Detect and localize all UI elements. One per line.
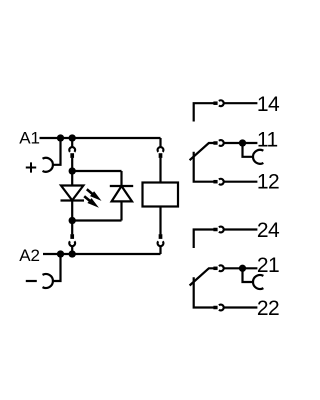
LED emission arrow 1 xyxy=(87,189,93,194)
contact arm group 2 (movable contact) xyxy=(190,268,214,285)
wire row 11 to label xyxy=(224,142,258,144)
junction dot LED top node xyxy=(69,167,76,174)
connector socket row 24 xyxy=(219,227,224,233)
junction dot A2-LED branch xyxy=(69,250,76,257)
connector pin (male) on LED branch bottom xyxy=(70,234,74,239)
svg-text:A1: A1 xyxy=(19,129,40,148)
junction dot A1-clamp xyxy=(57,134,64,141)
plus sign xyxy=(26,162,36,172)
wire LED node down to LED xyxy=(71,171,73,186)
connector pin (male) on coil bottom xyxy=(159,234,163,239)
wire row 14 to label xyxy=(224,102,258,104)
svg-text:22: 22 xyxy=(257,297,279,320)
wire row 21 to label xyxy=(224,267,258,269)
connector socket row 14 xyxy=(219,100,224,106)
connector pin row 24 xyxy=(213,228,217,232)
wire coil box down xyxy=(159,207,161,235)
wire socket to A2 rail xyxy=(159,246,161,254)
connector pin (male) on coil top xyxy=(159,153,163,158)
diode triangle (pointing up) xyxy=(112,186,132,201)
connector pin row 22 xyxy=(213,306,217,310)
wire A2 horizontal rail xyxy=(43,253,161,255)
connector pin row 14 xyxy=(213,101,217,105)
connector socket (female) on coil top xyxy=(158,147,164,152)
junction dot A1-LED branch xyxy=(69,134,76,141)
wire A2 dot down to clamp xyxy=(53,254,61,281)
junction dot row 21 clamp xyxy=(239,265,246,272)
svg-text:12: 12 xyxy=(257,171,279,194)
diode cathode bar xyxy=(110,185,133,187)
connector pin row 21 xyxy=(213,267,217,271)
clamp terminal 11 (cage clamp arc) xyxy=(253,150,263,164)
svg-text:11: 11 xyxy=(257,128,278,151)
connector socket row 12 xyxy=(219,179,224,185)
wire socket to A2 rail xyxy=(71,246,73,254)
wire pin to coil box xyxy=(159,158,161,183)
LED triangle (anode) xyxy=(61,186,83,201)
svg-text:14: 14 xyxy=(257,93,280,116)
clamp terminal 21 (cage clamp arc) xyxy=(253,275,263,289)
connector socket row 22 xyxy=(219,305,224,311)
svg-text:21: 21 xyxy=(257,254,279,277)
clamp terminal A1 (cage clamp arc) xyxy=(43,158,53,172)
wire LED bottom node down xyxy=(71,221,73,235)
contact group 2: NO stub 24 xyxy=(194,230,214,249)
svg-text:24: 24 xyxy=(257,219,280,242)
clamp terminal A2 (cage clamp arc) xyxy=(43,274,53,288)
wire row 12 to label xyxy=(224,181,258,183)
wire coil corner down from A1 rail xyxy=(159,138,161,147)
wire A1 dot down to clamp xyxy=(53,138,61,165)
connector socket (female) on coil bottom xyxy=(158,241,164,246)
wire from A1 dot2 down xyxy=(71,138,73,147)
wire common vertical to NC row 12 xyxy=(194,152,214,182)
contact group 1: NO stub 14 xyxy=(194,103,214,121)
wire top rail LED node to diode xyxy=(72,170,121,172)
connector pin row 12 xyxy=(213,180,217,184)
wire row 22 to label xyxy=(224,306,258,308)
wire row 21 dot down to clamp xyxy=(243,268,254,282)
junction dot A2-clamp xyxy=(57,250,64,257)
wire row 24 to label xyxy=(224,228,258,230)
wire A1 horizontal rail to coil corner xyxy=(40,137,161,139)
connector socket row 11 xyxy=(219,140,224,146)
connector pin (male) on LED branch top xyxy=(70,153,74,158)
wire common vertical to NC row 22 xyxy=(194,277,214,307)
svg-text:A2: A2 xyxy=(19,246,40,265)
junction dot row 11 clamp xyxy=(239,139,246,146)
wire bottom rail diode to LED node xyxy=(72,219,121,221)
wire pin to LED node xyxy=(71,158,73,171)
minus sign xyxy=(26,280,37,282)
connector socket row 21 xyxy=(219,265,224,271)
junction dot LED bottom node xyxy=(69,217,76,224)
contact arm group 1 (movable contact) xyxy=(190,143,214,160)
connector pin row 11 xyxy=(213,141,217,145)
LED cathode bar xyxy=(61,199,85,201)
wire diode to bottom rail xyxy=(120,201,122,220)
LED emission arrow 2 xyxy=(84,196,90,201)
wire row 11 dot down to clamp xyxy=(243,143,254,157)
connector socket (female) on LED branch bottom xyxy=(69,241,75,246)
wire LED to bottom node xyxy=(71,201,73,221)
relay coil box xyxy=(143,183,179,207)
wire diode branch down from top rail xyxy=(120,171,122,186)
connector socket (female) on LED branch top xyxy=(69,147,75,152)
